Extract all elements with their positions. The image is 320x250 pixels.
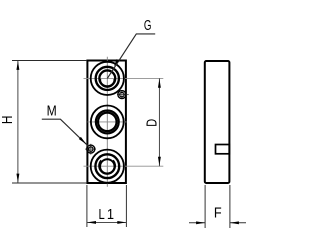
svg-text:M: M — [47, 102, 57, 118]
small hole G circles — [118, 91, 126, 99]
svg-text:1: 1 — [107, 205, 114, 222]
svg-text:G: G — [144, 17, 152, 34]
label G leader — [107, 34, 155, 79]
port P2 (middle) — [91, 106, 124, 139]
svg-text:D: D — [143, 119, 160, 127]
small hole M circles — [87, 145, 95, 153]
small hole M crosshair — [85, 144, 96, 155]
dimension F line with arrows — [189, 221, 246, 224]
port P1 (top) — [91, 62, 124, 95]
port P1 horizontal centerline / D top extension — [84, 77, 164, 79]
dimension F extension lines — [205, 185, 230, 228]
port P3 (bottom) — [91, 150, 124, 183]
port P2 horizontal centerline — [88, 121, 127, 123]
svg-text:L: L — [98, 205, 104, 222]
side view outline — [205, 61, 230, 183]
label M leader — [42, 119, 89, 146]
vertical centerline through ports — [106, 57, 108, 187]
dimension H extension lines — [12, 61, 86, 184]
svg-text:F: F — [214, 203, 222, 220]
dimension H line with arrows — [16, 61, 19, 184]
front view block outline — [87, 61, 126, 184]
side view notch — [216, 145, 230, 154]
svg-text:H: H — [0, 116, 16, 125]
dimension L1 extension lines — [87, 185, 127, 227]
dimension L1 line with arrows — [87, 221, 126, 224]
dimension D line with arrows — [158, 78, 161, 166]
port P3 horizontal centerline / D bottom extension — [84, 165, 164, 167]
small hole G crosshair — [117, 90, 129, 99]
